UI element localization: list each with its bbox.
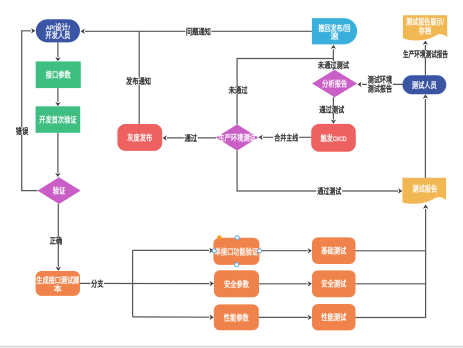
wire E22: 安全测试 to join [356, 283, 427, 285]
svg-text:错误: 错误 [16, 126, 29, 136]
svg-text:验证: 验证 [53, 186, 66, 196]
wire E23: 性能测试 right up to 测试报告 [356, 205, 429, 318]
svg-text:安全参数: 安全参数 [224, 279, 249, 289]
document 测试报告展示/存档 [403, 15, 447, 40]
handle right [258, 249, 262, 253]
wire E6: 发布通知 灰度发布 up to line [126, 31, 152, 124]
svg-text:未通过: 未通过 [229, 85, 248, 95]
process 基础测试 [312, 237, 356, 264]
svg-text:测试环境: 测试环境 [368, 74, 393, 84]
svg-text:测试报告: 测试报告 [412, 184, 437, 194]
start 测试人员 (stadium) [402, 75, 446, 94]
wire E11: 未通过测试 分析报告 to 撤回发布/回滚 [317, 45, 349, 70]
wire E12: 通过测试 分析报告 to 触发CI/CD [319, 97, 345, 124]
svg-text:未通过测试: 未通过测试 [318, 60, 349, 70]
separator bottom gray line [0, 345, 463, 347]
svg-text:性能参数: 性能参数 [224, 312, 249, 322]
wire E15: 测试报告 to 测试人员 [423, 94, 428, 178]
decision 分析报告 (diamond) [312, 70, 357, 97]
decision 生产环境测试 (diamond) [216, 124, 258, 150]
wire E9: 合并主线 触发CI/CD to 生产环境测试 [259, 132, 312, 142]
process 安全测试 [312, 270, 356, 297]
start 元件 API设计/开发人员 (stadium) [36, 19, 80, 42]
svg-text:测试报告展示/: 测试报告展示/ [406, 16, 445, 26]
wire E17c: branch to 单接口功能验证 [133, 248, 214, 253]
wire E18: 单接口功能验证 to 基础测试 [259, 248, 312, 253]
wire E17d: branch to 性能参数 [133, 315, 214, 320]
svg-text:灰度发布: 灰度发布 [127, 133, 152, 143]
wire E17b: branch vertical [132, 250, 134, 317]
wire E5: 错误 loop 验证 to API [15, 28, 38, 191]
wire E4: 验证 to 生成接口测试脚本, label 正确 [48, 204, 64, 271]
process 生成接口测试脚本 [36, 271, 80, 296]
svg-text:发布通知: 发布通知 [126, 76, 151, 86]
svg-text:通过测试: 通过测试 [317, 186, 341, 196]
wire E10: 未通过 生产环境测试 up right [228, 59, 333, 125]
wire E1: API to 接口参数 [55, 42, 60, 61]
delay 撤回发布/回滚 (D shape) [312, 18, 357, 44]
svg-text:接口参数: 接口参数 [46, 69, 71, 79]
svg-text:基础测试: 基础测试 [321, 246, 346, 256]
decision 验证 (diamond) [38, 177, 81, 204]
wire E17a: 分支 main to 安全参数 [80, 281, 214, 286]
svg-text:问题通知: 问题通知 [186, 26, 211, 36]
svg-text:生产环境测试: 生产环境测试 [218, 133, 256, 143]
wire E16: 通过测试 生产环境测试 to 测试报告 [237, 151, 402, 197]
edge label 分支 [91, 279, 105, 289]
process 开发首次验证 [36, 106, 81, 133]
process 单接口功能验证 (selected, with handles) [213, 238, 259, 265]
svg-text:开发人员: 开发人员 [45, 30, 70, 40]
handle orange dot [217, 235, 221, 239]
svg-text:合并主线: 合并主线 [274, 132, 298, 142]
wire E14: 生产环境测试报告 测试人员 to 测试报告展示/存档 [403, 41, 448, 76]
svg-text:测试人员: 测试人员 [412, 80, 437, 90]
handle left [212, 249, 216, 253]
process 性能参数 [214, 304, 259, 330]
svg-text:通过: 通过 [185, 133, 198, 143]
svg-text:分支: 分支 [91, 279, 104, 289]
wire E20: 性能参数 to 性能测试 [259, 315, 312, 320]
process 触发CI/CD [311, 124, 356, 152]
process 安全参数 [214, 270, 259, 297]
process 接口参数 [36, 61, 81, 88]
handle top [235, 236, 239, 240]
svg-text:开发首次验证: 开发首次验证 [39, 115, 77, 125]
wire E2: 接口参数 to 开发首次验证 [55, 88, 60, 106]
svg-text:本: 本 [54, 283, 62, 293]
svg-text:安全测试: 安全测试 [321, 279, 346, 289]
wire E19: 安全参数 to 安全测试 [259, 281, 312, 286]
handle bottom [235, 263, 239, 267]
svg-text:存档: 存档 [419, 25, 432, 35]
wire E13: 测试环境测试报告 测试人员 to 分析报告 [357, 74, 402, 93]
svg-text:测试报告: 测试报告 [368, 83, 393, 93]
svg-text:正确: 正确 [50, 236, 63, 246]
wire E8: 通过 生产环境测试 to 灰度发布 [163, 133, 216, 143]
svg-text:通过测试: 通过测试 [319, 104, 344, 114]
svg-text:生产环境测试报告: 生产环境测试报告 [403, 49, 448, 59]
wire E3: 开发首次验证 to 验证 [55, 133, 60, 177]
process 性能测试 [312, 304, 356, 330]
wire E21: 基础测试 to join [356, 250, 427, 252]
process 灰度发布 [117, 124, 162, 151]
svg-text:分析报告: 分析报告 [322, 79, 347, 89]
document 测试报告 [402, 178, 446, 204]
svg-text:滚: 滚 [331, 31, 339, 41]
svg-text:性能测试: 性能测试 [321, 312, 346, 322]
wire E7: 问题通知 撤回发布 to API [81, 26, 312, 36]
svg-text:单接口功能验证: 单接口功能验证 [215, 246, 259, 256]
